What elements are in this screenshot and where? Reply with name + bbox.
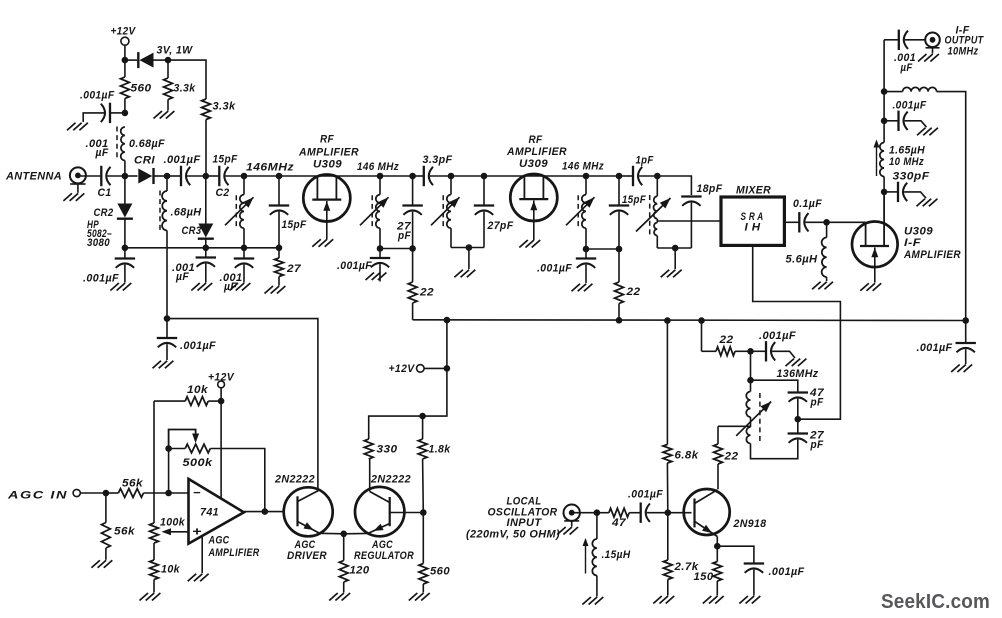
resistor 22 (2N918 collector) [714,444,723,464]
junction 136 tank top [747,377,754,384]
wire cap to ground (CR2 bypass) [124,265,126,283]
node +12V terminal (top left) [121,37,129,45]
wire 1.8k to base node [422,459,425,513]
junction 27pF bottom [409,245,416,252]
svg-text:.001µF: .001µF [537,263,572,275]
ground (tank4 bypass) [572,284,581,292]
inductor .15uH [592,539,597,576]
wire C1 to CR1 node [107,175,125,177]
wire tank2 coil to rail [379,228,381,248]
arrow 1.65uH (adjust) [876,141,878,176]
svg-text:22: 22 [419,287,434,299]
wire 15pF to rail [278,212,280,248]
svg-text:+12V: +12V [208,372,235,384]
wire tank2 bypass to ground [379,264,381,281]
mixer U-SRA-1H box [721,197,784,245]
wire tank2 bypass rail [380,248,413,250]
wire driver emitter line [320,532,369,535]
junction 500k node [165,445,172,452]
capacitor .001uF (IF bypass) [897,111,899,131]
svg-text:pF: pF [810,397,824,409]
wire divider column [153,401,155,523]
wire 15pF2 stem [618,176,620,205]
capacitor 330pF [897,182,899,202]
transistor Q3 2N918 [684,489,730,535]
inductor .68uH core (dashed) [159,191,161,232]
wire 10k to ground [153,580,155,593]
wire +12V column [423,320,447,416]
svg-text:146 MHz: 146 MHz [562,161,604,173]
junction CR3 node [203,173,210,180]
wire 56k shunt top [105,493,107,523]
wire tank5 bottom rail [657,247,691,249]
wire 1.65uH top lead [883,121,885,143]
wire .68uH down to AGC node [166,176,168,191]
wire LO to node [572,512,597,514]
wire tank3 ground stem [468,248,470,270]
wire inv node to 500k node [168,449,170,494]
wire cap to output terminal [905,39,925,41]
svg-text:SeekIC.com: SeekIC.com [881,591,990,613]
wire C2 to tank1 [225,175,244,177]
variable arrow tank3 [431,197,460,225]
wire pot to 10k [153,543,155,560]
wire tank1 to FET1 [279,175,380,177]
wire 47pF to junction [797,399,799,420]
wire 27pF to rail [412,212,414,249]
resistor 3.3k (drain feed) [202,99,211,120]
potentiometer 100k [150,523,159,543]
ground (IF output) [918,54,927,62]
wire 2N918 emitter lead [716,537,718,547]
svg-text:500k: 500k [183,457,214,469]
junction rail 22-2 [616,317,623,324]
ground (CR2 bypass) [110,283,119,291]
wire antenna to C1 [78,175,101,177]
svg-text:U309: U309 [904,226,933,238]
svg-text:+12V: +12V [111,26,137,38]
wire tank1 bypass stem [243,248,245,258]
junction 15pF bottom [276,245,283,252]
wire tank bottom [751,440,798,459]
wire output terminal stem [932,48,934,54]
ground (AGC line) [153,361,162,369]
junction rail1 left [122,245,129,252]
ground (560 regulator) [409,593,418,601]
capacitor 0.1uF [798,212,800,232]
junction CR1 anode node [122,173,129,180]
inductor tank2 core (dashed) [371,195,373,227]
svg-text:U309: U309 [519,158,548,170]
junction AGC line left [164,315,171,322]
svg-text:15pF: 15pF [282,219,307,231]
svg-text:µF: µF [223,281,237,293]
svg-text:.001µF: .001µF [337,260,372,272]
svg-text:C1: C1 [98,187,112,199]
inductor IF feedback coil [903,87,937,91]
svg-text:47: 47 [611,517,627,529]
wire CR3 to bypass rail [205,239,207,248]
svg-text:10k: 10k [187,384,209,396]
ground (emitter cap) [739,596,748,604]
ground (2.7k) [653,596,662,604]
junction bypass cap node [122,110,129,117]
wire tank5 coil to rail [656,236,658,248]
junction 27pF2 top [481,173,488,180]
wire tank1 coil to rail [243,228,245,248]
wire tank5 coil mid [656,219,658,223]
svg-text:560: 560 [430,566,450,578]
svg-text:.001µF: .001µF [893,100,927,112]
wire tank2 coil leads [379,176,381,195]
wire 2.7k to ground [667,580,669,596]
junction rail 22-3 [698,317,705,324]
junction tank4 top [583,173,590,180]
resistor 27 [275,258,284,277]
resistor 22 (tank4 feed) [615,282,624,304]
wire tank3 coil leads [450,176,452,195]
svg-text:.68µH: .68µH [171,207,203,219]
wire 6.8k column top [666,321,668,445]
wire tank2 bypass stem [379,249,381,258]
resistor 10k (feedback) [185,397,208,406]
capacitor 27pF (tank3) [474,204,494,206]
capacitor C2 15pF [218,166,220,186]
wire LO terminal stem [571,521,573,527]
wire 22 ohm2 leads [618,249,620,282]
wire 56k shunt to ground [105,548,107,560]
ground (120) [329,593,338,601]
wire AGC line to driver collector [167,319,318,491]
wire AGC IN to node [80,492,106,494]
svg-text:146MHz: 146MHz [246,162,294,174]
wire coil top lead [750,380,752,391]
wire 22 ohm dropping leads [412,249,414,283]
junction tank2 top [377,173,384,180]
wire emitter node to cap [717,546,754,562]
wire AGC bypass to ground [166,344,168,360]
antenna terminal [70,167,86,183]
capacitor .001uF (tank2 bypass) [370,257,390,259]
capacitor .001uF (IF output) [898,30,900,50]
wire .15uH to ground [596,576,598,597]
wire 5.6uH top lead [826,222,828,237]
svg-text:.001µF: .001µF [80,90,115,102]
wire CR2 to bypass rail [124,219,126,248]
wire tank1 node to 15pF node [244,175,279,177]
junction 27pF top [409,173,416,180]
wire 120 leads [343,534,345,561]
svg-text:22: 22 [625,286,640,298]
wire right bypass stem [965,321,967,343]
svg-text:10 MHz: 10 MHz [889,156,924,168]
resistor 10k (divider) [150,560,159,580]
wire 560 leads [124,60,126,77]
svg-text:C2: C2 [216,187,230,199]
capacitor .001uF (tank4 bypass) [576,257,596,259]
wire 120 to ground [343,582,345,593]
diode CR1 [138,169,152,184]
inductor tank5 (variable, tapped) [654,196,658,219]
junction rail1 CR3 [203,245,210,252]
junction rail 6.8k [664,317,671,324]
ground (LO terminal) [557,527,566,535]
wire 56k to inv node [144,492,189,494]
wire +12V distribution rail [413,319,966,322]
svg-text:330pF: 330pF [893,171,930,183]
capacitor 27pF (tank2) [402,204,422,206]
capacitor 15pF (tank4) [609,204,629,206]
svg-text:µF: µF [175,271,189,283]
ground (tank2 bypass) [366,273,375,281]
wire .001uF to ground [905,121,927,127]
inductor tank4 (variable) [582,195,586,229]
wire 15pF stem [278,176,280,205]
node +12V terminal (op-amp) [218,381,225,388]
svg-text:3.3k: 3.3k [174,83,196,95]
wire 22-2 to +12V rail [618,304,620,321]
ground (.15uH) [582,597,591,605]
svg-text:3.3k: 3.3k [213,101,236,113]
capacitor .001uF (CR3 bypass) [196,256,216,258]
wire tank5 coil leads [656,176,658,196]
wiper 500k [169,430,196,449]
wire antenna stem [77,184,79,193]
svg-text:AMPLIFIER: AMPLIFIER [506,146,567,158]
wire 500k to output [210,449,264,512]
wire .001uF to ground (136) [772,351,795,358]
resistor 47 [609,508,629,517]
svg-text:2N2222: 2N2222 [274,474,315,486]
svg-text:560: 560 [131,83,153,95]
junction tank5 ground node [672,245,679,252]
svg-text:pF: pF [810,439,824,451]
ground (150) [703,596,712,604]
capacitor 1pF [632,166,634,186]
wire tank3 bypass rail [451,247,484,249]
wire coil mid lead [750,417,752,427]
junction output node [262,508,269,515]
inductor .68uH [162,191,167,231]
capacitor .001uF (LO coupling) [640,503,642,523]
wire AGC bypass stem [166,319,168,337]
node I-F OUTPUT terminal [925,33,940,48]
svg-text:56k: 56k [114,526,136,538]
capacitor .001uF (emitter) [744,562,764,564]
arrow .15uH (adjust) [585,540,587,574]
wire 3.3k upper lead [167,60,169,78]
wire 1pF to tank5 [639,175,657,177]
wire node to .001uF [751,350,767,352]
wire 10k feedback line [154,400,185,402]
junction CR1 cathode node [164,173,171,180]
svg-text:27pF: 27pF [487,220,514,232]
diode CR3 [198,224,213,238]
wire LO terminal tab [564,520,579,522]
svg-text:+12V: +12V [389,363,416,375]
diode 3V 1W zener [140,53,154,68]
svg-text:15pF: 15pF [213,154,238,166]
ground (330pF) [917,199,926,207]
capacitor 47pF [788,391,808,393]
ground (136MHz cap) [786,359,795,367]
svg-text:pF: pF [397,230,411,242]
variable arrow tank2 [360,197,389,225]
svg-text:15pF: 15pF [622,194,646,206]
wire .001uF (IF) lead [884,120,898,122]
wire tap corner to 22ohm [717,426,719,444]
wire 330 top [369,416,423,439]
junction tank2 bottom [377,245,384,252]
wire tank4 bypass stem [585,249,587,258]
junction 10k/+12V node [218,398,225,405]
wire CR1 to node [154,175,168,177]
svg-text:1.8k: 1.8k [429,444,451,456]
node AGC IN terminal [73,489,80,496]
wire 22 lead right [735,350,751,352]
svg-text:−: − [193,486,201,500]
wire +12V to op-amp V+ [220,388,222,499]
capacitor 18pF [681,195,701,197]
ground (rail bypass right) [951,365,960,373]
svg-text:1.65µH: 1.65µH [889,145,926,157]
wire 560 to bypass junction [124,99,126,113]
wire node to tank top [750,351,752,380]
svg-text:2N2222: 2N2222 [370,474,411,486]
wire 47 to cap [629,512,641,514]
wire 150 to ground [716,581,718,596]
wire 27ohm leads [278,248,280,258]
svg-text:DRIVER: DRIVER [287,550,327,562]
svg-text:.001µF: .001µF [164,154,201,166]
wire tank2 to 3.3pF [413,175,424,177]
junction regulator base node [420,509,427,516]
wire junction to zener [125,59,137,61]
wire tank4 coil to rail [585,228,587,249]
resistor 22 (tank2 feed) [408,282,417,303]
wire regulator collector [369,459,371,492]
svg-text:AMPLIFIER: AMPLIFIER [208,547,260,559]
svg-text:I-F: I-F [904,237,921,249]
transistor U309 RF amplifier 2 (JFET) [510,174,557,221]
wire output terminal tab [926,47,940,49]
junction rail +12V drop [444,317,451,324]
svg-text:27: 27 [286,263,302,275]
wire top corner to output cap [884,39,899,41]
wire tank3 coil to rail [450,228,452,247]
junction LO node [594,509,601,516]
wire coil tap [718,425,751,427]
svg-text:ANTENNA: ANTENNA [5,171,62,183]
svg-text:1pF: 1pF [636,155,654,167]
svg-text:150: 150 [694,571,714,583]
wire 22 lead left [702,350,717,352]
wire tank5 tap to mixer [657,220,721,222]
wire tank4 to 1pF [619,175,633,177]
wire 150 leads [716,546,718,561]
ground below 3.3k [154,111,163,119]
resistor 120 [339,561,348,583]
wire CR2 anode lead [124,176,126,204]
junction tank3 ground node [466,244,473,251]
wire mixer LO port path [753,245,841,419]
junction inverting node [165,490,172,497]
svg-text:18pF: 18pF [697,183,723,195]
junction at 3.3k top [165,57,172,64]
svg-text:µF: µF [95,147,109,159]
junction IF feedback node [881,88,888,95]
svg-text:CRI: CRI [134,155,156,167]
wire tank4 bypass rail [586,248,619,250]
wire 3.3k lower lead [167,100,169,111]
wire 18pF to rail [690,203,692,248]
junction +12V column node [444,365,451,372]
ground (bias bypass) [67,123,76,131]
svg-text:AMPLIFIER: AMPLIFIER [298,147,359,159]
wire IF top column [883,40,885,92]
wire tank3 to FET2 [484,175,586,177]
capacitor .001uF (AGC line) [157,337,177,339]
svg-text:6.8k: 6.8k [675,450,699,462]
wire 3.3k feed to RF line [205,120,207,177]
wire LO node to 47 [597,512,609,514]
capacitor 27pF (136MHz) [788,432,808,434]
svg-text:100k: 100k [160,517,185,529]
inductor 136MHz coil [746,392,750,418]
wire choke to RF line [124,161,126,177]
resistor 3.3k (zener load) [164,78,173,100]
wire 27pF leads [797,419,799,432]
ground (.001uF IF) [917,128,926,136]
junction AGC divider node [103,490,110,497]
capacitor 15pF (tank1) [269,204,289,206]
svg-text:330: 330 [377,444,399,456]
wire PIN-diode bypass rail [125,247,279,249]
svg-text:.001µF: .001µF [759,330,796,342]
junction rail right end [962,317,969,324]
junction 2N918 base node [665,509,672,516]
inductor 136MHz core (dashed) [759,393,761,442]
wire tank1 coil leads [243,176,245,195]
inductor 1.65uH [880,143,884,177]
svg-text:.001µF: .001µF [917,342,953,354]
svg-text:0.1µF: 0.1µF [793,198,822,210]
junction 15pF2 bottom [616,246,623,253]
resistor 150 [713,562,722,582]
inductor tank4 core (dashed) [577,195,579,227]
svg-text:.001µF: .001µF [769,566,805,578]
wire 2.7k leads [667,513,669,560]
wiper 100k [164,531,189,533]
resistor 56k (shunt) [102,523,111,549]
svg-text:3080: 3080 [87,237,110,249]
wire 560 leads (regulator) [422,513,424,564]
wire 0.1uF to IF node [805,221,826,223]
wire 10k to +12V node [208,400,221,402]
inductor 0.68uF choke core (dashed) [116,127,118,161]
ground (27 ohm) [265,286,274,294]
ground (op-amp) [188,574,197,582]
wire 15pF2 to rail [618,212,620,249]
svg-text:AGC: AGC [208,535,230,547]
wire 6.8k to base node [666,463,668,513]
wire antenna tab [70,183,85,185]
wire 27pF2 stem [483,176,485,205]
junction tank1 bottom [241,245,248,252]
svg-text:.001µF: .001µF [628,489,663,501]
junction tank5 top [654,173,661,180]
wire tank1 bypass to ground [243,265,245,283]
